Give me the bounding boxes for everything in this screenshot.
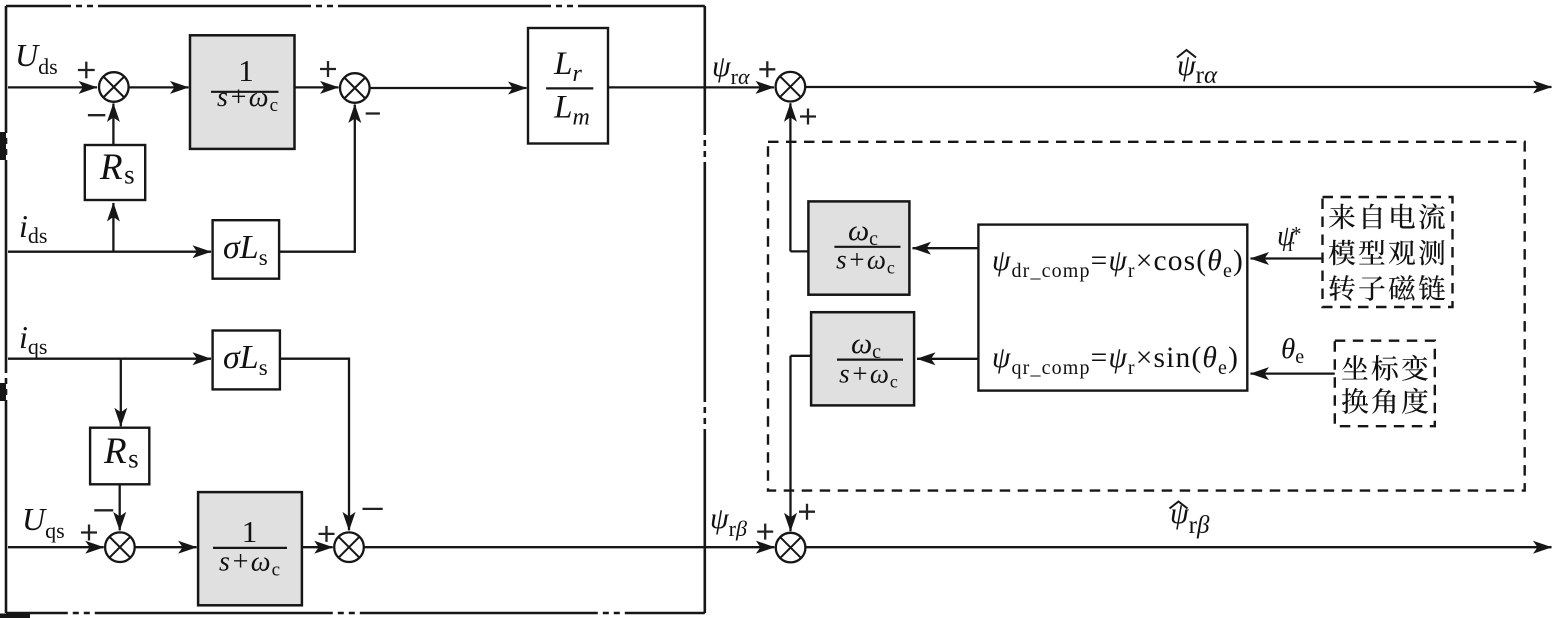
svg-text:ids: ids	[19, 208, 47, 248]
svg-text:ψrβ: ψrβ	[710, 502, 747, 541]
svg-text:*: *	[1291, 222, 1302, 246]
svg-text:θe: θe	[1281, 333, 1304, 368]
svg-text:Uds: Uds	[15, 37, 58, 79]
svg-text:ψrα: ψrα	[1177, 49, 1218, 89]
svg-text:Uqs: Uqs	[22, 501, 65, 543]
svg-text:ψrα: ψrα	[712, 50, 750, 89]
svg-text:iqs: iqs	[19, 319, 47, 359]
svg-text:1: 1	[242, 514, 258, 549]
